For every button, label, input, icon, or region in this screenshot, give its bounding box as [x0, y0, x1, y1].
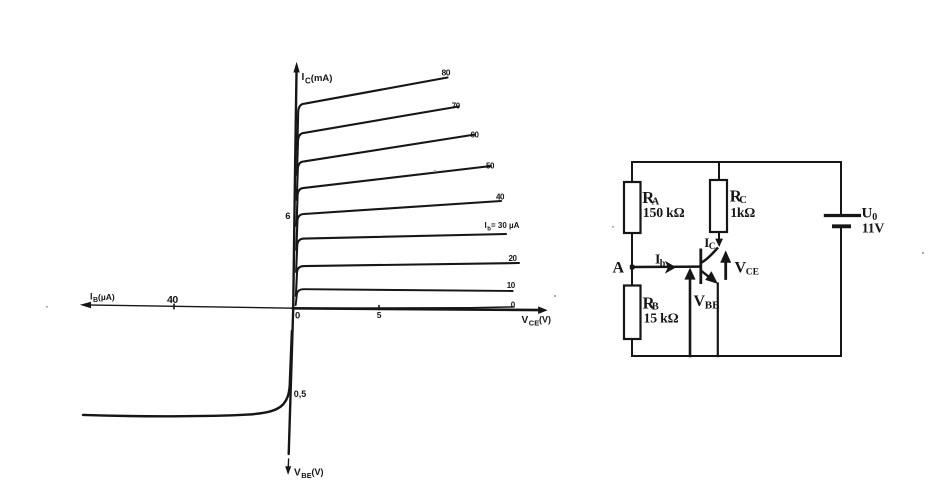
wire top rail	[632, 162, 841, 356]
label IC(mA)	[302, 72, 333, 86]
svg-text:CE: CE	[529, 319, 539, 328]
axis IC vertical	[289, 66, 297, 454]
transistor Q1 base bar	[699, 249, 702, 285]
curve Ib=60	[297, 135, 475, 201]
svg-text:(V): (V)	[312, 467, 324, 477]
label VBE(V)	[294, 467, 324, 480]
axis IB arrowhead	[82, 302, 91, 307]
scan speckles	[46, 170, 924, 308]
arrow VCE arrowhead	[720, 250, 731, 262]
svg-text:0,5: 0,5	[294, 389, 307, 399]
label VBE	[694, 293, 720, 312]
wire emitter vertical	[717, 284, 719, 357]
svg-text:CE: CE	[746, 268, 759, 278]
svg-text:150 kΩ: 150 kΩ	[643, 205, 685, 220]
svg-text:50: 50	[486, 162, 495, 171]
transistor Q1 collector diagonal	[702, 248, 719, 263]
resistor RC body	[710, 180, 727, 232]
svg-text:20: 20	[509, 254, 518, 263]
axis IC arrowhead	[294, 64, 299, 73]
svg-text:0: 0	[295, 311, 300, 322]
arrow Ib arrowhead	[665, 261, 676, 274]
svg-text:(µA): (µA)	[98, 292, 115, 302]
svg-text:10: 10	[507, 281, 516, 290]
arrow VBE arrowhead	[684, 268, 695, 280]
label VCE(V)	[522, 315, 552, 328]
svg-text:V: V	[694, 293, 706, 310]
svg-text:(V): (V)	[539, 315, 551, 325]
label Ib = 30 uA	[485, 221, 520, 233]
transistor Q1 emitter arrowhead	[705, 271, 718, 284]
svg-text:U: U	[862, 206, 873, 222]
svg-text:C: C	[709, 242, 716, 252]
svg-text:11V: 11V	[862, 220, 885, 235]
curve Ib=80	[297, 78, 447, 151]
axis IB leftward	[84, 305, 293, 308]
svg-text:40: 40	[496, 193, 505, 202]
arrow VBE line	[689, 279, 692, 356]
wire right rail top	[840, 162, 842, 214]
label IC current	[704, 235, 716, 252]
svg-text:BE: BE	[301, 471, 311, 480]
svg-text:V: V	[735, 260, 747, 277]
arrow VCE line	[724, 261, 727, 279]
label RB	[643, 293, 659, 312]
curve Ib=0	[298, 307, 514, 308]
node A junction dot	[630, 265, 635, 270]
curve Ib=20	[296, 263, 519, 296]
battery U0 short plate	[832, 224, 851, 228]
curve Ib=70	[297, 107, 459, 176]
resistor RB body	[624, 286, 641, 340]
label RC	[730, 187, 747, 207]
wire RC drop	[718, 162, 720, 180]
battery U0 long plate	[824, 214, 861, 217]
curve Ib=40	[296, 201, 501, 250]
wire collector vertical	[718, 232, 720, 241]
label IB(uA)	[90, 292, 115, 305]
svg-text:V: V	[522, 315, 529, 326]
axis VBE arrow glyph	[287, 459, 289, 469]
label U0	[862, 206, 878, 224]
axis VCE horizontal	[293, 308, 544, 310]
label VCE	[735, 260, 760, 278]
wire bottom rail	[632, 355, 841, 357]
svg-text:15 kΩ: 15 kΩ	[644, 311, 679, 326]
transistor Q1 emitter diagonal	[702, 271, 711, 278]
svg-text:A: A	[613, 259, 625, 276]
svg-text:60: 60	[471, 130, 480, 139]
label RA	[642, 188, 659, 208]
svg-text:BE: BE	[705, 300, 720, 312]
svg-text:0: 0	[511, 301, 516, 310]
svg-text:6: 6	[285, 211, 290, 222]
svg-text:80: 80	[442, 68, 451, 78]
axis VCE arrowhead	[539, 307, 547, 313]
curve Ib=50	[297, 166, 492, 226]
arrow IC arrowhead	[715, 239, 723, 247]
tick 5 on VCE axis	[378, 306, 380, 310]
svg-text:5: 5	[377, 310, 382, 320]
svg-text:40: 40	[167, 294, 178, 306]
wire base from node A	[632, 265, 700, 268]
tick 40 on IB axis	[173, 304, 175, 309]
curve Ib=10	[296, 289, 513, 305]
svg-text:70: 70	[452, 101, 461, 110]
label Ib current	[655, 253, 666, 270]
svg-text:(mA): (mA)	[311, 73, 333, 84]
svg-text:b: b	[660, 259, 666, 270]
svg-text:= 30 µA: = 30 µA	[491, 221, 520, 230]
curve VBE input characteristic	[83, 331, 292, 416]
svg-text:1kΩ: 1kΩ	[730, 205, 755, 220]
curve Ib=30	[296, 234, 506, 272]
resistor RA body	[624, 182, 641, 233]
wire right rail bottom	[840, 228, 842, 356]
svg-text:V: V	[294, 468, 301, 479]
